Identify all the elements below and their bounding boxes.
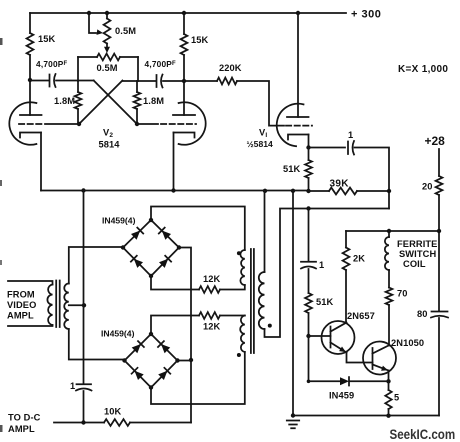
svg-text:FERRITE: FERRITE	[397, 239, 437, 249]
wire R2 right lead	[120, 56, 138, 58]
svg-text:220K: 220K	[219, 63, 242, 73]
transformer T1 core	[56, 281, 60, 328]
wire C1 to cross	[56, 80, 94, 82]
svg-text:K=X 1,000: K=X 1,000	[398, 64, 448, 75]
wire cathode rail	[41, 190, 309, 192]
diode CR2b	[161, 344, 170, 353]
node V1 cathode junction	[306, 145, 310, 149]
wire center tap line upper	[83, 191, 85, 385]
wire R2 left drop	[77, 57, 79, 81]
node T2 primary upper dot	[237, 251, 241, 255]
wire T1 center tap	[69, 304, 84, 306]
svg-text:51K: 51K	[316, 297, 334, 307]
scan smudge 1	[0, 38, 3, 45]
wire R4 bottom lead	[136, 109, 138, 124]
resistor R15 12K	[199, 312, 220, 319]
svg-text:+ 300: + 300	[351, 9, 381, 21]
svg-text:COIL: COIL	[403, 259, 426, 269]
resistor R5 15K	[181, 34, 188, 55]
node pot top rail tap	[105, 11, 109, 15]
wire upper bridge right link	[179, 248, 191, 423]
svg-text:1: 1	[70, 381, 75, 391]
wire cathode link line	[265, 209, 390, 338]
node Q2 emitter node	[386, 379, 390, 383]
svg-text:20: 20	[422, 182, 433, 192]
resistor R11 70	[386, 288, 393, 306]
wire Q2 emitter lead	[388, 371, 390, 382]
svg-text:2N657: 2N657	[347, 311, 375, 321]
tube V2b cathode	[174, 133, 195, 138]
svg-text:51K: 51K	[283, 164, 301, 174]
svg-text:70: 70	[397, 289, 408, 299]
transformer T2 secondary	[259, 272, 265, 329]
wire R2 right drop	[137, 57, 139, 81]
wire R16 right lead	[130, 422, 191, 424]
svg-text:IN459(4): IN459(4)	[101, 329, 135, 339]
wire R3 bottom lead	[77, 109, 79, 124]
capacitor C1 4700pF	[49, 75, 51, 87]
arrow pot wiper	[97, 29, 104, 35]
node T1 center tap junction	[82, 303, 86, 307]
wire Q1 collector line	[345, 270, 347, 323]
svg-text:FROM: FROM	[7, 290, 35, 300]
resistor R9 20	[436, 176, 443, 195]
svg-text:SWITCH: SWITCH	[399, 249, 436, 259]
diode CR1b	[162, 231, 171, 240]
scan smudge 2	[0, 180, 2, 186]
wire +300 top rail	[30, 12, 346, 14]
node upper bridge right	[177, 245, 181, 249]
wire right plate column bottom	[183, 55, 185, 115]
wire pot bottom lead	[106, 44, 108, 48]
svg-text:TO D-C: TO D-C	[8, 413, 41, 423]
node V1 plate rail tap	[296, 11, 300, 15]
svg-text:+28: +28	[425, 134, 446, 148]
resistor R4 1.8M	[134, 92, 141, 109]
wire T1 primary bottom lead	[8, 325, 53, 326]
node right grid junction	[135, 122, 139, 126]
wire R13 leads	[388, 381, 390, 416]
wire pot wiper	[89, 13, 96, 33]
svg-text:V2: V2	[103, 128, 113, 140]
wire left plate column bottom	[29, 55, 31, 115]
svg-text:VI: VI	[259, 128, 267, 140]
capacitor C3 1	[347, 142, 349, 155]
transformer T1 primary	[47, 285, 52, 326]
potentiometer 0.5M	[104, 19, 111, 44]
transformer T2 primary lower	[240, 316, 245, 353]
svg-text:IN459: IN459	[329, 391, 354, 401]
node upper bridge bottom	[149, 274, 153, 278]
wire C3 to corner	[355, 148, 390, 209]
svg-text:AMPL: AMPL	[8, 424, 35, 434]
svg-text:2N1050: 2N1050	[391, 338, 424, 348]
tube V2a envelope	[9, 102, 36, 145]
resistor R6 220K	[217, 78, 237, 85]
node pot wiper rail tap	[87, 11, 91, 15]
svg-text:1.8M: 1.8M	[54, 96, 75, 106]
wire D1 left column	[308, 336, 310, 381]
svg-text:IN459(4): IN459(4)	[102, 216, 136, 226]
svg-text:2K: 2K	[353, 254, 365, 264]
wire T1 primary top lead	[8, 281, 53, 285]
node R13 bottom node	[386, 414, 390, 418]
wire T2 secondary top lead	[264, 191, 266, 272]
tube V1 cathode	[288, 135, 309, 140]
node coil tap	[387, 229, 391, 233]
node rail tap ground line	[291, 189, 295, 193]
wire T2 primary lower top lead	[220, 315, 245, 317]
svg-text:SeekIC.com: SeekIC.com	[390, 427, 456, 442]
wire R11 to Q2 collector	[388, 305, 390, 346]
node lower bridge right	[175, 358, 179, 362]
wire +28 lead	[438, 149, 440, 176]
wire C6 bottom lead	[83, 391, 85, 423]
transformer T2 core	[251, 249, 254, 353]
wire R6 to V1 grid	[237, 81, 284, 126]
tube V2b grid	[137, 123, 158, 125]
node D1 corner	[307, 380, 311, 384]
diode CR2d	[158, 371, 167, 380]
svg-text:½5814: ½5814	[247, 139, 274, 149]
resistor R3 1.8M	[75, 92, 82, 109]
wire T2 primary upper bottom lead	[220, 285, 245, 290]
diode CR1d	[159, 259, 168, 268]
diode D1 1N459	[340, 377, 349, 385]
svg-text:4,700PF: 4,700PF	[145, 59, 177, 69]
wire C4 bottom	[438, 318, 440, 416]
svg-text:5814: 5814	[99, 140, 121, 150]
resistor R13 5	[385, 390, 391, 409]
wire R4 top lead	[136, 81, 138, 92]
svg-text:10K: 10K	[104, 407, 122, 417]
wire upper bridge top link	[151, 207, 245, 251]
diode CR1a	[131, 231, 140, 240]
wire V2a cathode lead	[40, 133, 42, 191]
tube V2b plate	[173, 114, 195, 116]
tube V2b envelope	[179, 102, 206, 145]
wire collector rail	[346, 230, 439, 232]
wire ground line	[292, 191, 294, 416]
node left grid junction	[77, 122, 81, 126]
scan smudge 4	[0, 425, 3, 432]
capacitor C6 1	[77, 383, 92, 385]
wire R8 leads	[309, 190, 390, 192]
diode CR2c	[135, 371, 144, 380]
svg-text:12K: 12K	[203, 322, 221, 332]
wire cross diagonal to left grid	[79, 81, 122, 125]
wire T2 primary lower bottom lead	[151, 352, 245, 404]
resistor R12 51K	[305, 293, 312, 313]
wire L1 to R11	[388, 270, 390, 288]
node rail tap V2b cathode	[171, 188, 175, 192]
wire R3 top lead	[77, 81, 79, 92]
node bridge right to lower tap	[189, 358, 193, 362]
node output junction	[81, 420, 85, 424]
wire V1 plate lead	[297, 13, 299, 117]
tube V1 grid	[286, 125, 312, 127]
svg-text:12K: 12K	[203, 274, 221, 284]
tube V2a cathode	[20, 133, 41, 138]
svg-text:AMPL: AMPL	[7, 311, 34, 321]
node upper bridge left	[121, 245, 125, 249]
wire R9 bottom	[438, 195, 440, 311]
svg-text:1: 1	[348, 130, 353, 140]
svg-text:1.8M: 1.8M	[143, 96, 164, 106]
wire L1 top lead	[388, 231, 390, 237]
wire emitter ground rail	[293, 415, 439, 417]
svg-text:0.5M: 0.5M	[97, 63, 118, 73]
node link tap	[306, 206, 310, 210]
resistor R7 51K	[305, 160, 312, 178]
resistor R1 15K	[27, 33, 34, 55]
wire R7 bottom lead	[308, 178, 310, 191]
resistor R8 39K	[329, 188, 357, 195]
wire D1 right lead	[350, 380, 389, 382]
svg-text:1: 1	[319, 260, 324, 270]
diode CR1c	[134, 259, 143, 268]
wire right plate column top	[183, 13, 185, 34]
wire left plate to C1	[30, 80, 49, 82]
wire Q1 load top	[345, 231, 347, 248]
inductor L1 ferrite switch coil	[385, 237, 389, 270]
node right plate rail tap	[182, 11, 186, 15]
wire R12 to base node	[308, 313, 310, 336]
node lower bridge bottom	[149, 385, 153, 389]
svg-text:VIDEO: VIDEO	[7, 300, 36, 310]
wire R2 left lead	[78, 56, 97, 58]
wire cross diagonal to right grid	[94, 81, 137, 125]
tube V1 envelope	[277, 104, 304, 147]
diode CR2a	[132, 344, 141, 353]
resistor R16 10K	[104, 419, 130, 426]
capacitor C2 4700pF	[156, 75, 158, 87]
svg-text:15K: 15K	[191, 35, 209, 45]
wire cathode to C3	[309, 147, 346, 149]
resistor R10 2K	[343, 248, 350, 271]
node rail tap T1 center	[81, 188, 85, 192]
svg-text:80: 80	[417, 309, 428, 319]
svg-text:5: 5	[394, 393, 399, 403]
transformer T2 primary upper	[240, 250, 244, 285]
wire R14 to bridge	[151, 276, 199, 290]
wire Q1 emitter to Q2 base	[347, 353, 373, 363]
node T2 secondary dot	[268, 324, 272, 328]
node supply rail junction	[437, 229, 441, 233]
wire D1 left lead	[309, 380, 341, 382]
svg-text:0.5M: 0.5M	[115, 26, 136, 36]
node left plate junction	[28, 78, 32, 82]
node rail tap T2 secondary	[263, 189, 267, 193]
node R8 right junction	[387, 189, 391, 193]
wire T1 secondary top lead	[69, 247, 123, 284]
capacitor C5 1	[301, 261, 316, 263]
wire upper bridge edges	[123, 220, 179, 276]
node right plate junction	[182, 79, 186, 83]
ground symbol	[287, 421, 299, 429]
node rail tap R7	[306, 189, 310, 193]
arrow pot tap onto R2	[104, 47, 110, 53]
wire Q1 base lead	[309, 335, 331, 337]
wire R7 top lead	[308, 148, 310, 161]
transistor Q2 2N1050	[363, 342, 396, 375]
transformer T1 secondary	[64, 284, 69, 330]
wire R15 to bridge	[151, 316, 199, 335]
wire output line	[54, 422, 104, 424]
wire cross start to C2	[122, 80, 156, 82]
tube V2a grid	[19, 123, 43, 125]
wire V1 cathode lead	[308, 135, 310, 148]
wire pot top lead	[106, 13, 108, 19]
wire lower bridge right link	[178, 360, 192, 362]
wire lower bridge edges	[125, 334, 178, 388]
wire V2b cathode lead	[173, 133, 175, 191]
wire R6 left lead	[184, 80, 217, 82]
tube V2a plate	[20, 114, 42, 116]
node T2 primary lower dot	[237, 353, 241, 357]
svg-text:15K: 15K	[38, 34, 56, 44]
wire left plate column top	[29, 13, 31, 33]
wire T1 secondary bottom lead	[69, 329, 125, 360]
scan smudge 3	[0, 260, 2, 265]
wire link to C5	[308, 209, 310, 262]
svg-text:4,700PF: 4,700PF	[36, 59, 68, 69]
transistor Q1 2N657	[322, 321, 355, 354]
resistor R2 0.5M	[97, 54, 120, 61]
node lower bridge left	[122, 358, 126, 362]
wire C2 to plate junction	[163, 80, 184, 82]
resistor R14 12K	[199, 286, 220, 293]
svg-text:39K: 39K	[330, 179, 350, 190]
node Q1 base node	[306, 334, 310, 338]
capacitor C4 80	[432, 311, 448, 313]
node upper bridge top	[149, 218, 153, 222]
node ground node	[291, 413, 295, 417]
node lower bridge top	[149, 332, 153, 336]
wire C5 to R12	[308, 269, 310, 293]
tube V1 plate	[287, 116, 309, 118]
